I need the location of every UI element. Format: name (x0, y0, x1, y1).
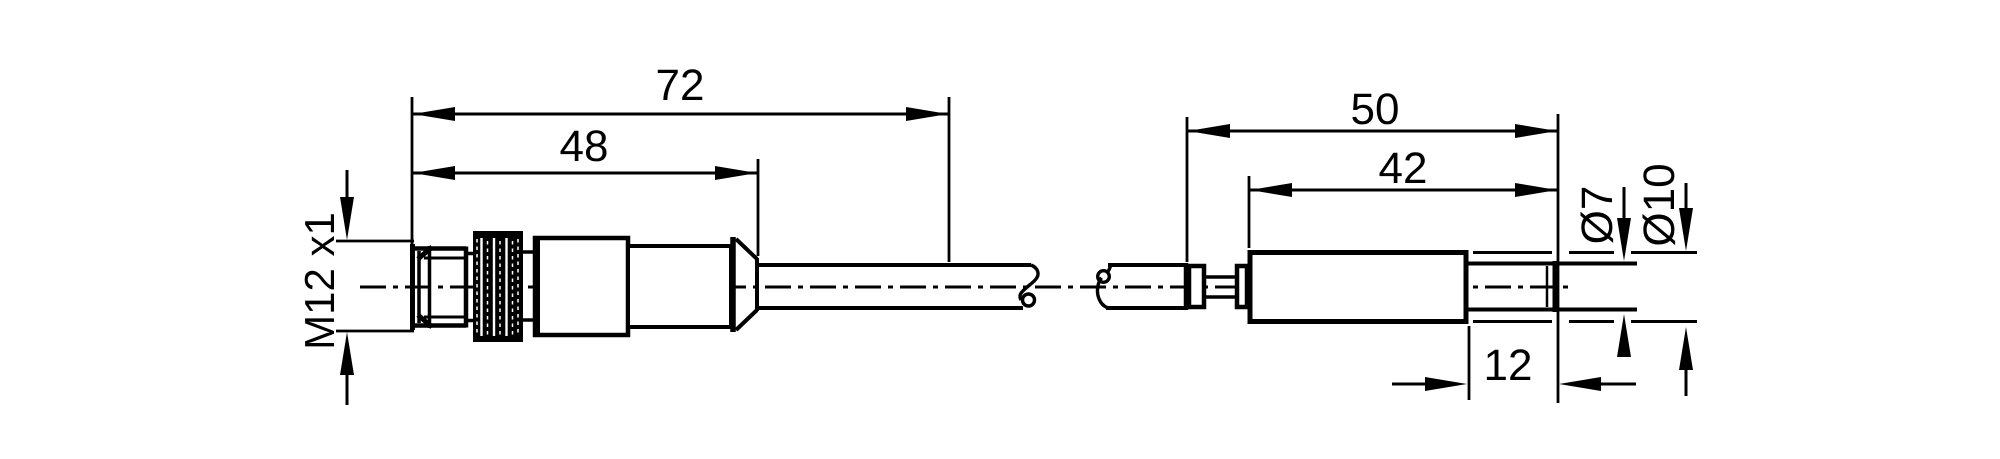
probe tip (1467, 261, 1637, 312)
svg-text:Ø7: Ø7 (1573, 186, 1622, 245)
dimension diameter 7 (1573, 186, 1631, 357)
cable right segment (1106, 265, 1187, 308)
dimension 48 (413, 122, 758, 256)
centerline axis (360, 286, 1574, 289)
ferrule collar 2 (1237, 266, 1247, 307)
neck between knurl and body (523, 252, 535, 320)
ferrule collar 1 (1189, 266, 1204, 307)
connector body rear section (628, 246, 731, 327)
svg-text:12: 12 (1484, 341, 1533, 390)
dimension M12 x1 (296, 170, 414, 405)
cable break left squiggle (1020, 265, 1038, 306)
dimension 50 (1187, 85, 1558, 403)
svg-text:72: 72 (656, 61, 705, 110)
cable left segment (757, 265, 1031, 308)
cable break right squiggle (1097, 266, 1110, 308)
connector body front section (535, 238, 628, 335)
svg-text:Ø10: Ø10 (1635, 163, 1684, 246)
svg-text:M12 x1: M12 x1 (296, 212, 343, 350)
dimension 42 (1249, 144, 1557, 248)
M12 connector end face (413, 244, 433, 330)
cable end face (1184, 263, 1189, 310)
svg-text:50: 50 (1351, 85, 1400, 134)
neck between thread and knurl (466, 254, 474, 321)
dimension diameter 10 (1473, 163, 1697, 396)
knurled ring (473, 231, 523, 342)
thread section (411, 247, 466, 328)
strain relief flange (730, 237, 736, 332)
svg-text:48: 48 (560, 122, 609, 171)
neck tube (1204, 277, 1238, 297)
dimension 12 (1392, 326, 1636, 400)
probe body (1250, 253, 1466, 322)
strain relief taper (736, 239, 757, 330)
svg-text:42: 42 (1379, 144, 1428, 193)
dimension 72 (412, 61, 949, 262)
